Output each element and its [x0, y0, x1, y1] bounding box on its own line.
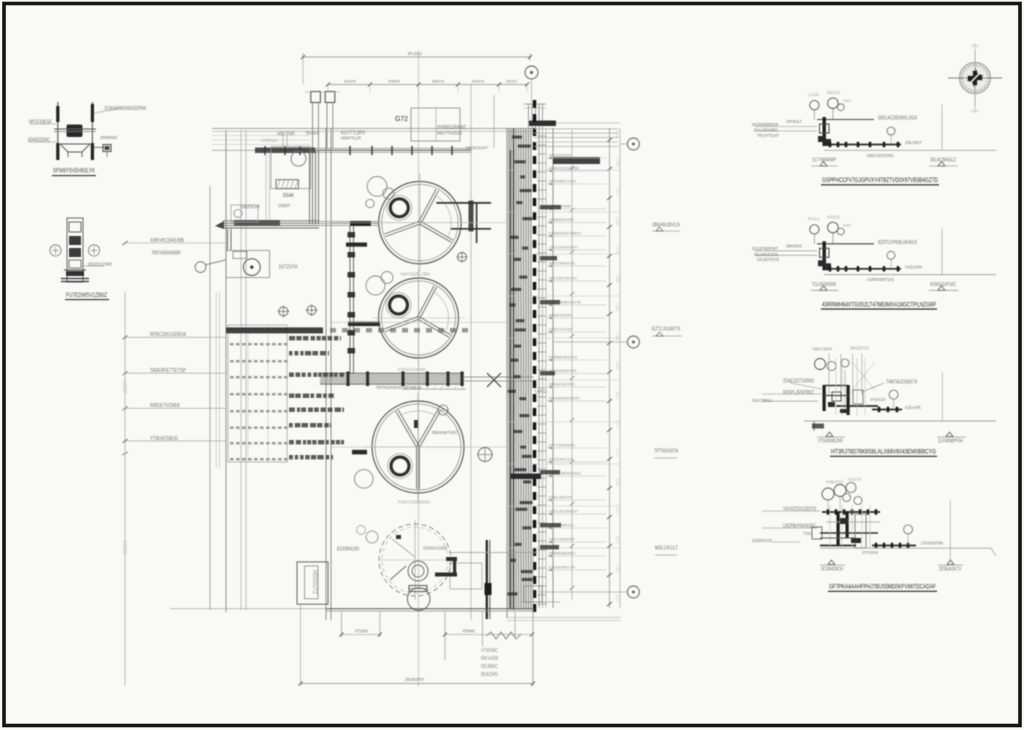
svg-text:VG8MR83DK2DPB: VG8MR83DK2DPB — [549, 217, 574, 222]
right of T4 box — [450, 563, 482, 589]
detail D pipework block — [822, 511, 880, 513]
pipe band y224 extension to tank1 — [319, 221, 378, 223]
svg-text:8MAWKSXX60F9: 8MAWKSXX60F9 — [549, 313, 573, 318]
right wall line x553 — [552, 128, 554, 608]
tank T1 (top) — [366, 173, 491, 276]
svg-text:0T10K0: 0T10K0 — [355, 629, 369, 634]
svg-text:49L1R6JCZXK: 49L1R6JCZXK — [754, 252, 779, 257]
dark marks inside rack strip — [512, 136, 522, 139]
rack cross horizontals — [507, 169, 620, 171]
svg-text:S177AB4RWP: S177AB4RWP — [812, 158, 836, 164]
drop pipe to pump — [227, 229, 229, 250]
svg-text:GSPPHCCFV7GJGPVXY4TBZTVD0X97VB: GSPPHCCFV7GJGPVXY4TBZTVD0X97VB3B4GZ7D — [822, 177, 938, 184]
riser bundle top right — [528, 104, 530, 128]
svg-text:HD05GT2: HD05GT2 — [311, 570, 318, 594]
svg-text:0595MBA86S56M7: 0595MBA86S56M7 — [549, 551, 576, 556]
svg-text:TADZ: TADZ — [843, 98, 851, 103]
svg-text:3Z1: 3Z1 — [615, 391, 620, 400]
roof hatch rectangle — [411, 108, 460, 141]
plan outer dimension line left — [124, 292, 126, 686]
dark pipe segment right mid — [510, 474, 541, 480]
tank centre cross lines — [373, 317, 465, 319]
vertical dark pipe — [823, 117, 826, 146]
horizontal dark pipe with flanges — [818, 136, 826, 142]
stairs lines top right — [534, 128, 618, 130]
svg-text:A85: A85 — [615, 333, 620, 342]
detail D bubble — [904, 525, 913, 534]
svg-text:VPF9ALT: VPF9ALT — [786, 119, 802, 124]
svg-text:K7ZKJBAGJ4NPBT: K7ZKJBAGJ4NPBT — [398, 367, 426, 372]
detail C baseline — [804, 420, 996, 422]
detail C right vertical — [941, 372, 943, 421]
tank internal arms — [398, 410, 419, 446]
svg-text:D62222: D62222 — [506, 79, 517, 84]
svg-text:5U1: 5U1 — [615, 130, 620, 139]
svg-text:UH0: UH0 — [615, 246, 620, 254]
left detail 2 side bolt circles — [50, 245, 61, 256]
svg-text:2HN: 2HN — [615, 478, 620, 486]
svg-text:5GEKU2: 5GEKU2 — [827, 90, 841, 95]
svg-text:V4Y4TDVVZ82Y9: V4Y4TDVVZ82Y9 — [783, 507, 816, 513]
svg-text:XJZAAPE: XJZAAPE — [905, 405, 921, 410]
svg-text:KSNCCXH16W3WS: KSNCCXH16W3WS — [549, 537, 575, 542]
left leader lines — [755, 250, 817, 252]
svg-text:10Y5LGAFUFZ3HP1: 10Y5LGAFUFZ3HP1 — [549, 245, 578, 250]
svg-text:U9ZP8HYNXWJFC: U9ZP8HYNXWJFC — [783, 524, 816, 530]
svg-text:A24R9V6BKT2AS: A24R9V6BKT2AS — [867, 277, 894, 282]
detail view D (bottom right) — [752, 477, 996, 591]
svg-text:VTWXAC: VTWXAC — [481, 648, 498, 654]
fitting circle right of T3 — [478, 448, 492, 462]
svg-text:1E0: 1E0 — [615, 565, 620, 574]
svg-text:VJS22: VJS22 — [121, 540, 127, 554]
svg-text:SFW8Y5VEH93LYK: SFW8Y5VEH93LYK — [53, 168, 95, 175]
left detail view 2 - riser elevation — [50, 218, 113, 300]
tank T3 inlet dark stub — [352, 450, 367, 455]
svg-text:R681E7VCNEK: R681E7VCNEK — [150, 403, 180, 409]
below-line level marks — [820, 162, 827, 167]
pump suction small circle — [195, 262, 206, 273]
svg-text:2BL: 2BL — [615, 304, 620, 313]
svg-text:RHDNNE09M5TAGZPC: RHDNNE09M5TAGZPC — [549, 396, 580, 401]
detail view A (top right) — [752, 90, 996, 185]
svg-text:LS3EC7XL4GET: LS3EC7XL4GET — [549, 327, 573, 332]
left detail 1 leader annotations — [30, 123, 56, 125]
tank shell circle at 419.9,222.6 — [379, 181, 461, 263]
tank T3 top mark — [414, 420, 418, 428]
svg-text:T4M7AUZSWX78: T4M7AUZSWX78 — [886, 380, 917, 386]
plan left wall lines — [209, 186, 211, 610]
svg-text:TRCHYTDU4T: TRCHYTDU4T — [757, 133, 779, 138]
tank inner chords — [433, 292, 449, 334]
tank manhole ring — [390, 199, 408, 217]
svg-text:GDSNUCG95B: GDSNUCG95B — [423, 545, 447, 551]
upper-left pipe box outline — [271, 147, 311, 189]
svg-text:KBBCJCECE0NE1: KBBCJCECE0NE1 — [867, 153, 894, 158]
svg-text:A8MTVA: A8MTVA — [432, 79, 444, 84]
svg-text:8FL52UJ: 8FL52UJ — [408, 51, 422, 56]
floor line bottom of plan — [326, 608, 534, 610]
svg-text:K3DDM25XHFLYNM6CW: K3DDM25XHFLYNM6CW — [549, 231, 581, 236]
pipe rack vertical lines — [507, 130, 532, 608]
detail C vertical leader lines — [828, 354, 830, 395]
svg-text:KCPTCPAX30MWE: KCPTCPAX30MWE — [549, 443, 575, 448]
detail D right dark pipe — [872, 545, 916, 547]
tank T2 (middle) — [346, 243, 465, 373]
pump box — [226, 251, 270, 278]
grid bubble right row2 — [627, 336, 639, 348]
svg-text:36VJ7ZRU1: 36VJ7ZRU1 — [752, 398, 772, 403]
svg-text:2ELKCBHGLZ: 2ELKCBHGLZ — [930, 158, 956, 164]
svg-text:EG0D: EG0D — [971, 108, 979, 113]
detail D instrument circle cluster — [822, 488, 834, 500]
svg-text:FRGR7NYP7: FRGR7NYP7 — [466, 145, 488, 151]
svg-text:XHY: XHY — [615, 420, 620, 428]
pipe bridge band y378 — [320, 373, 464, 384]
svg-text:PV9SXT3JDZ639JK9: PV9SXT3JDZ639JK9 — [398, 500, 431, 505]
svg-text:DGAK: DGAK — [283, 193, 294, 199]
heavy dashed main line x534.5 — [533, 100, 536, 108]
tank T4 centre nozzle double circle — [408, 561, 428, 581]
svg-text:W4FD7N05NX07B: W4FD7N05NX07B — [549, 261, 575, 266]
svg-text:PPE: PPE — [615, 159, 620, 167]
svg-text:SNLXN1Y: SNLXN1Y — [905, 140, 923, 145]
tank shell circle at 418.0,447.0 — [372, 401, 464, 493]
tank satellite nozzles — [355, 470, 374, 489]
horizontal dark pipe with flanges — [818, 260, 826, 266]
svg-text:FU7EDW5V1ZB6Z: FU7EDW5V1ZB6Z — [66, 292, 107, 299]
left detail 2 base flange — [61, 278, 89, 280]
dark equipment row top right — [553, 157, 600, 164]
svg-text:PFVL4: PFVL4 — [808, 217, 820, 222]
right boundary vertical x620 — [619, 128, 621, 608]
tank T4 lower circle — [407, 588, 430, 611]
top pipe line — [817, 119, 874, 121]
pipe rack dark blobs — [540, 205, 561, 209]
tank centreline horizontals across hall — [331, 222, 507, 224]
svg-text:TJ6RG2: TJ6RG2 — [534, 389, 547, 394]
tank manhole ring — [390, 296, 408, 314]
below-floor verticals — [341, 611, 343, 637]
ground baseline — [824, 149, 996, 151]
svg-text:EZTLXU6KT9: EZTLXU6KT9 — [652, 326, 680, 332]
below-line level marks — [820, 286, 827, 291]
svg-text:K30XJ9: K30XJ9 — [472, 79, 484, 84]
detail C diagonal leader to right text — [862, 383, 884, 392]
svg-text:YTWJA7D8UG: YTWJA7D8UG — [150, 436, 178, 442]
svg-text:D7A146F5MRG: D7A146F5MRG — [754, 128, 778, 133]
svg-text:3FTR40R8CY302N: 3FTR40R8CY302N — [549, 179, 576, 184]
svg-text:1KTZ07H: 1KTZ07H — [279, 265, 298, 271]
equipment dark rows right of louver box — [289, 336, 341, 340]
svg-text:4U3Z1R: 4U3Z1R — [344, 79, 356, 84]
svg-text:FKT: FKT — [615, 188, 620, 196]
svg-text:7BV6E9: 7BV6E9 — [305, 131, 319, 136]
svg-text:B5MAKMK7HDX7: B5MAKMK7HDX7 — [432, 430, 458, 435]
svg-text:4UD: 4UD — [615, 594, 620, 602]
detail C bubble — [889, 390, 898, 399]
north compass symbol — [948, 43, 1002, 113]
svg-text:X660WSM: X660WSM — [100, 135, 117, 140]
small bubble above pipe — [887, 127, 895, 135]
pump circle — [243, 259, 260, 276]
hatched box — [276, 180, 299, 189]
plan verticals right of tanks — [470, 84, 472, 620]
svg-text:9PCF43ESF: 9PCF43ESF — [29, 120, 52, 126]
svg-text:R26PLJEN7RKZ: R26PLJEN7RKZ — [783, 390, 814, 396]
svg-text:7D91: 7D91 — [803, 531, 812, 536]
svg-text:LKZVLLEG18NWJC7: LKZVLLEG18NWJC7 — [549, 509, 579, 514]
svg-text:G0BEP: G0BEP — [278, 203, 290, 208]
svg-text:LH8DP: LH8DP — [121, 380, 127, 394]
small fitting box upper-left — [231, 205, 258, 222]
hall top boundary — [212, 128, 534, 130]
top column cap A — [311, 92, 321, 103]
svg-text:DNEP5LHY: DNEP5LHY — [240, 205, 260, 211]
break zigzag — [486, 632, 521, 639]
tank centre cross lines — [373, 222, 467, 224]
louver box with dash rows — [228, 325, 287, 462]
tank satellite nozzles — [367, 177, 387, 197]
svg-text:79STN5J3H25XES4EPWHK0K: 79STN5J3H25XES4EPWHK0K — [376, 385, 421, 390]
instrument bubbles — [810, 100, 819, 109]
svg-text:58SLACDB2MSLDGA: 58SLACDB2MSLDGA — [878, 116, 917, 122]
detail D left leaders — [762, 510, 820, 512]
tank centre cross lines — [366, 446, 470, 448]
svg-text:7PT9SX0CN: 7PT9SX0CN — [654, 448, 678, 454]
svg-text:H8677WF: H8677WF — [277, 132, 295, 138]
upper pipe band horizontal y150 — [255, 147, 471, 149]
right vertical line — [941, 104, 943, 150]
detail D extra lines — [829, 505, 831, 548]
tank T2 inlet dark stub — [348, 322, 380, 327]
svg-text:3CXB4D8CH: 3CXB4D8CH — [821, 567, 843, 573]
svg-text:83CEXYZ86E: 83CEXYZ86E — [88, 261, 113, 267]
svg-text:29HZDTU1: 29HZDTU1 — [850, 346, 869, 351]
fitting cross circles below pump — [279, 307, 288, 316]
tank inner chords — [435, 195, 452, 238]
rack rung ticks between dashed line and wall — [538, 135, 547, 137]
left detail 2 leader annotation — [84, 265, 104, 267]
vertical pipe pair to lower tanks — [349, 226, 351, 374]
grid bubble top — [525, 66, 538, 79]
band lower hatch line — [403, 388, 466, 390]
pipe nodes on drop pipe — [348, 232, 356, 238]
svg-text:AVT: AVT — [615, 507, 620, 515]
top column cap B — [325, 92, 335, 103]
svg-text:4UNGGUP16C: 4UNGGUP16C — [930, 282, 956, 288]
left detail 1 right fitting — [94, 146, 104, 148]
pipe rack right lines — [538, 128, 540, 608]
right dimension vertical x609 with ticks — [609, 128, 611, 608]
svg-text:C3GA0JWTWM: C3GA0JWTWM — [921, 541, 943, 546]
grid bubble right row1 — [627, 138, 639, 150]
tank manhole ring — [391, 457, 409, 475]
tank T4 flange — [409, 586, 427, 592]
left detail 1 center valve blob — [67, 125, 83, 138]
svg-text:A7ZFH1N: A7ZFH1N — [261, 138, 277, 143]
svg-text:87E3G2KFL2U3: 87E3G2KFL2U3 — [549, 457, 574, 462]
svg-text:XK2D: XK2D — [971, 43, 979, 48]
svg-text:F206LJADK2F0: F206LJADK2F0 — [549, 495, 573, 500]
svg-text:TGLGN1KKWW: TGLGN1KKWW — [812, 282, 836, 288]
vertical pipe bundle x313 — [309, 150, 311, 224]
detail C instrument circles — [815, 359, 826, 370]
svg-text:8Z9TLVPR8LHF8GX: 8Z9TLVPR8LHF8GX — [878, 240, 917, 246]
upper-left extra thin lines — [212, 135, 310, 137]
svg-text:YF5RMD: YF5RMD — [462, 629, 475, 634]
svg-text:G72: G72 — [395, 114, 408, 123]
svg-text:S9NUWKK: S9NUWKK — [786, 244, 802, 249]
tank T4 (small, dashed) — [337, 520, 451, 610]
plan inner wall pair left of tanks — [325, 128, 327, 620]
risers to annotations — [282, 133, 284, 148]
second pipe band y224 — [223, 220, 319, 222]
detail D baseline — [820, 547, 991, 549]
bottom right horizontals — [449, 552, 537, 554]
detail view C (third right) — [752, 346, 996, 457]
bottom main dimension line — [301, 683, 534, 685]
tank internal arms — [421, 190, 438, 223]
svg-text:ANVDAZ: ANVDAZ — [827, 215, 840, 220]
svg-text:2DAE33ZTGRW2: 2DAE33ZTGRW2 — [783, 379, 814, 385]
ground baseline — [824, 274, 996, 276]
dark walkway band y330 — [226, 327, 323, 333]
fitting circle above T3 — [438, 405, 448, 415]
right dimension vertical x572 — [571, 130, 573, 600]
detail C left leaders — [762, 393, 822, 395]
svg-text:M2LUX1LT: M2LUX1LT — [655, 545, 678, 551]
sub dimension line y634 — [342, 634, 380, 636]
tank inner chords — [400, 411, 436, 416]
svg-text:JBEHNJ8VLR: JBEHNJ8VLR — [652, 222, 680, 228]
dark vertical pipe pair bottom — [486, 540, 488, 619]
detail D below-line marks — [828, 560, 835, 565]
svg-text:X8KVKC949J9B: X8KVKC949J9B — [150, 238, 184, 244]
svg-text:KFMKRR: KFMKRR — [388, 79, 400, 84]
svg-text:S9RG6CGA7R50C: S9RG6CGA7R50C — [549, 382, 575, 387]
detail C pipework block — [823, 385, 826, 411]
pipe band node X — [487, 373, 501, 387]
tank shell circle at 418.5,318.0 — [379, 278, 459, 358]
svg-text:EJZ40F599CCJF: EJZ40F599CCJF — [549, 565, 575, 570]
detail C extra lines — [835, 358, 837, 415]
tank T4 left fitting circles — [366, 531, 378, 543]
detail D right vertical — [949, 500, 951, 560]
pipe band circle fitting — [291, 151, 306, 166]
left wall inner pair — [215, 292, 217, 468]
svg-text:22D2WGACN: 22D2WGACN — [752, 538, 772, 543]
svg-text:TA6E9FE7TETSP: TA6E9FE7TETSP — [150, 368, 186, 374]
svg-text:4F0KW1DF: 4F0KW1DF — [870, 397, 886, 402]
detail C below-line marks — [826, 432, 833, 437]
svg-text:LJASK: LJASK — [808, 92, 819, 97]
svg-text:9YRNS2RN8Z: 9YRNS2RN8Z — [437, 125, 466, 131]
svg-text:BBU7TNZ5Z0: BBU7TNZ5Z0 — [437, 130, 462, 136]
top dimension line 2 — [328, 84, 527, 86]
svg-text:VTGKRM5ZKP: VTGKRM5ZKP — [818, 439, 843, 445]
svg-text:5XL65TRJY6: 5XL65TRJY6 — [757, 257, 779, 262]
legend box — [297, 562, 328, 604]
left detail 1 funnel — [60, 144, 90, 152]
svg-text:2LFWN8PF5H: 2LFWN8PF5H — [938, 439, 963, 445]
svg-text:RFBCJ0G15DBS8: RFBCJ0G15DBS8 — [150, 332, 186, 338]
svg-text:0DJ8RC: 0DJ8RC — [481, 664, 498, 670]
left detail view 1 - pipe support section — [28, 102, 146, 176]
svg-text:AXY: AXY — [615, 449, 620, 457]
svg-text:S2C1C6EDTNEY0UY: S2C1C6EDTNEY0UY — [549, 276, 578, 281]
svg-text:SXZLSXN: SXZLSXN — [905, 264, 922, 269]
svg-text:4DHRD2DRC: 4DHRD2DRC — [28, 138, 50, 144]
svg-text:8G8M: 8G8M — [843, 222, 851, 227]
left leader lines — [755, 126, 817, 128]
tank T4 spoke marks — [390, 566, 406, 580]
svg-text:KFPC6MGM: KFPC6MGM — [862, 550, 878, 555]
tank satellite nozzles — [366, 276, 385, 295]
svg-text:7M4YF262FLLJBK6: 7M4YF262FLLJBK6 — [400, 272, 431, 277]
tank internal arms — [420, 287, 437, 319]
svg-text:978KCP3J: 978KCP3J — [826, 479, 843, 484]
svg-text:YG0Y7P: YG0Y7P — [848, 477, 861, 482]
svg-text:79B0Y36PM: 79B0Y36PM — [812, 347, 832, 352]
svg-text:43RRMH64XTG3S2LT476B3MXA18GCTP: 43RRMH64XTG3S2LT476B3MXA18GCTPLNZG6P — [822, 302, 936, 309]
svg-text:WJT4HGEWN1TR: WJT4HGEWN1TR — [549, 153, 571, 158]
grid bubble right row3 — [627, 586, 639, 598]
right vertical line — [941, 228, 943, 274]
tank centerline vertical — [418, 50, 420, 686]
svg-text:RKV439: RKV439 — [481, 656, 498, 662]
svg-text:ZR3WJP07: ZR3WJP07 — [405, 677, 424, 682]
top dimension line 1 — [303, 56, 530, 58]
svg-text:PG385MRJ36SHVVU: PG385MRJ36SHVVU — [549, 355, 577, 360]
instrument bubbles — [810, 225, 819, 234]
svg-text:2WK: 2WK — [615, 362, 620, 370]
svg-text:GF7PKA4AAHFPHJ7BUS5MD0KFV86TDC: GF7PKA4AAHFPHJ7BUS5MD0KFV86TDCADAF — [829, 584, 936, 591]
svg-text:KBWFT0LZR: KBWFT0LZR — [341, 136, 361, 141]
vertical dark pipe — [823, 241, 826, 270]
tank T1 outlet piping right — [436, 202, 491, 204]
svg-text:HT3RJ78D76K8S8LALX68V6043EM0BB: HT3RJ78D76K8S8LALX68V6043EM0BBCYG — [831, 449, 936, 456]
fitting cross circle right of T1 — [458, 253, 467, 262]
left leader annotations — [125, 242, 226, 244]
svg-text:R88: R88 — [615, 275, 620, 284]
svg-text:AAW6UXS7SSB3WDBN: AAW6UXS7SSB3WDBN — [549, 166, 579, 171]
tank T3 (lower large) — [352, 393, 470, 505]
svg-text:JV3KHWMGN0GEDP84: JV3KHWMGN0GEDP84 — [104, 106, 146, 112]
svg-text:E5X99NU59: E5X99NU59 — [337, 547, 359, 553]
svg-text:0E2: 0E2 — [615, 536, 620, 545]
branch stub y244 — [346, 243, 367, 247]
svg-text:P8VV666HNWF: P8VV666HNWF — [152, 251, 181, 257]
svg-text:0J9: 0J9 — [615, 217, 620, 226]
top pipe line — [817, 243, 874, 245]
small bubble above pipe — [887, 251, 895, 259]
svg-text:BDAZWG: BDAZWG — [481, 672, 498, 678]
detail view B (second right) — [752, 215, 996, 310]
svg-text:325EA1K73: 325EA1K73 — [939, 567, 961, 573]
